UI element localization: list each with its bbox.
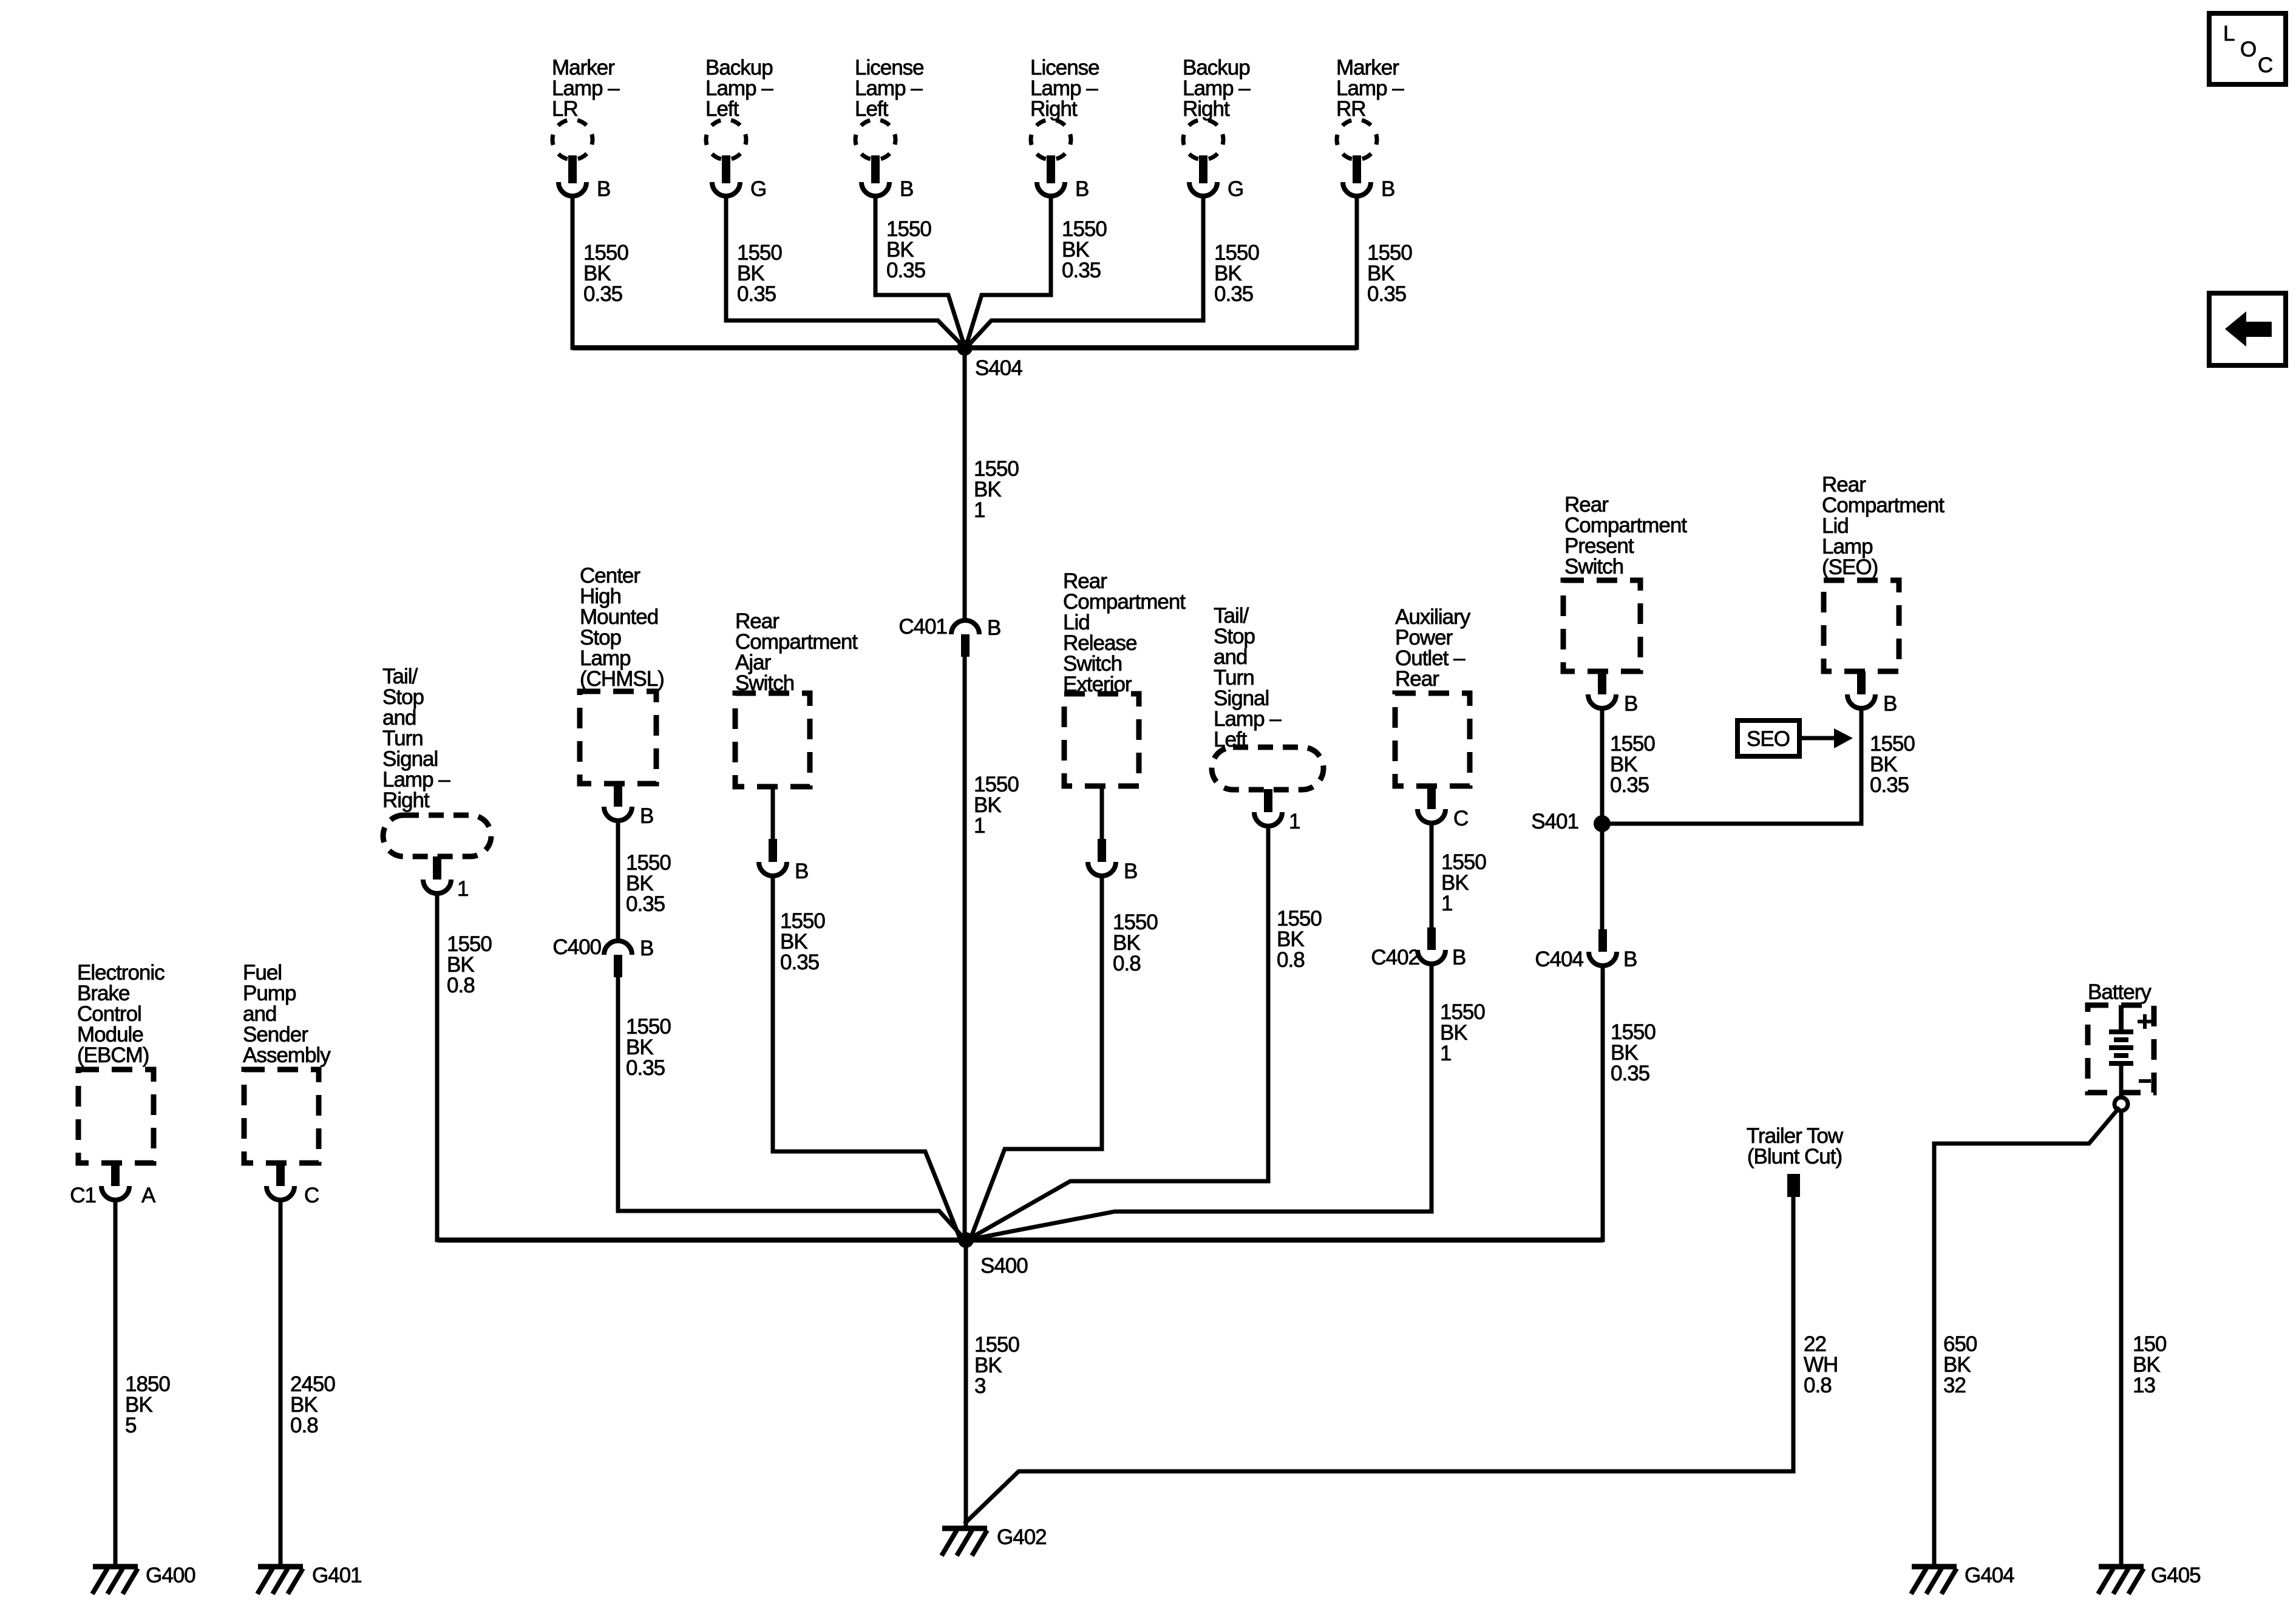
svg-text:Right: Right <box>1183 97 1230 121</box>
fuel pump connector pin C <box>276 1163 285 1186</box>
wire S400 bus <box>438 1238 1603 1243</box>
svg-text:0.35: 0.35 <box>1611 1062 1649 1085</box>
ground G404 <box>1912 1564 1957 1570</box>
wire EBCM to G400 <box>114 1202 118 1564</box>
aux connector pin C <box>1427 786 1436 809</box>
svg-text:B: B <box>1124 859 1137 883</box>
wire C400 to S400 <box>618 977 962 1236</box>
tail stop right lamp <box>383 815 491 856</box>
svg-text:C401: C401 <box>898 615 947 639</box>
wire marker LR to S404 <box>571 198 575 348</box>
CHMSL box <box>580 691 656 784</box>
svg-text:13: 13 <box>2133 1374 2155 1397</box>
battery box <box>2088 1005 2154 1093</box>
svg-text:C: C <box>304 1184 319 1207</box>
lid lamp SEO box <box>1824 580 1899 671</box>
svg-text:Right: Right <box>382 788 430 812</box>
svg-text:(Blunt Cut): (Blunt Cut) <box>1747 1145 1842 1168</box>
svg-text:C: C <box>1453 807 1468 830</box>
svg-text:0.35: 0.35 <box>1610 773 1649 797</box>
wire ajar box to pin <box>771 787 775 839</box>
svg-text:(CHMSL): (CHMSL) <box>580 667 664 691</box>
connector C404 <box>1598 929 1607 952</box>
svg-text:Right: Right <box>1030 97 1078 121</box>
svg-text:3: 3 <box>974 1374 985 1398</box>
svg-text:1: 1 <box>1289 810 1300 833</box>
battery node <box>2114 1097 2128 1111</box>
svg-text:Battery: Battery <box>2088 980 2152 1004</box>
CHMSL connector pin B <box>614 784 622 807</box>
marker lamp RR bulb <box>1337 120 1377 160</box>
wire S401 to C404 <box>1600 824 1605 929</box>
svg-text:G405: G405 <box>2151 1564 2201 1587</box>
EBCM box <box>78 1070 154 1163</box>
SEO arrow <box>1801 736 1835 741</box>
wire backup right to S404 <box>968 198 1203 346</box>
lid release switch box <box>1064 694 1139 786</box>
svg-text:1: 1 <box>1441 892 1452 915</box>
aux power outlet box <box>1395 693 1470 786</box>
wire C402 to S400 <box>973 966 1432 1239</box>
svg-text:B: B <box>1624 692 1637 716</box>
svg-text:SEO: SEO <box>1747 727 1790 751</box>
release connector pin B <box>1098 839 1106 862</box>
wire marker bus through S404 <box>572 345 1357 351</box>
svg-text:G: G <box>1228 177 1243 201</box>
svg-text:C400: C400 <box>552 935 601 959</box>
svg-text:0.35: 0.35 <box>1870 773 1909 797</box>
wire S400 to G402 <box>964 1240 968 1526</box>
wire ajar to S400 <box>773 878 959 1236</box>
svg-text:(SEO): (SEO) <box>1822 555 1878 579</box>
license lamp left bulb <box>855 120 895 160</box>
wire license left to S404 <box>875 198 964 345</box>
wire CHMSL to C400 <box>616 825 620 938</box>
svg-text:B: B <box>1883 692 1897 716</box>
wire license right to S404 <box>966 198 1051 345</box>
wire backup left to S404 <box>726 198 963 346</box>
svg-text:S404: S404 <box>975 356 1022 380</box>
splice S401 <box>1594 815 1611 832</box>
svg-text:0.8: 0.8 <box>1277 948 1305 972</box>
wire trailer tow to G402 <box>966 1197 1793 1522</box>
svg-text:32: 32 <box>1943 1374 1966 1397</box>
svg-text:0.35: 0.35 <box>1214 282 1253 306</box>
svg-text:1: 1 <box>1440 1042 1451 1065</box>
tail stop left lamp <box>1212 747 1323 790</box>
svg-text:G: G <box>750 177 766 201</box>
fuel pump box <box>244 1070 319 1163</box>
ajar switch box <box>735 693 810 787</box>
splice S400 <box>958 1232 974 1248</box>
svg-text:0.35: 0.35 <box>886 259 925 282</box>
svg-text:0.35: 0.35 <box>1367 282 1406 306</box>
svg-text:O: O <box>2240 38 2256 61</box>
wire C404 to S400 <box>974 968 1603 1240</box>
svg-text:1: 1 <box>457 877 468 901</box>
svg-text:B: B <box>640 804 653 828</box>
wire S404 to C401 <box>963 348 967 618</box>
svg-text:B: B <box>1452 946 1466 969</box>
svg-text:0.8: 0.8 <box>290 1414 318 1437</box>
svg-text:1: 1 <box>974 498 985 522</box>
wire release to S400 <box>971 878 1102 1236</box>
svg-text:0.8: 0.8 <box>1113 952 1141 975</box>
SEO callout box <box>1737 720 1799 756</box>
backup lamp left bulb <box>706 120 746 160</box>
svg-text:L: L <box>2223 22 2235 46</box>
wire SEO lamp to S401 <box>1611 711 1861 824</box>
wire tail stop right to S400 <box>435 896 440 1240</box>
svg-text:RR: RR <box>1336 97 1366 121</box>
connector C401 <box>951 620 979 634</box>
svg-text:G402: G402 <box>997 1525 1047 1549</box>
svg-text:0.35: 0.35 <box>626 892 665 916</box>
svg-text:B: B <box>597 177 610 201</box>
license lamp right bulb <box>1031 120 1071 160</box>
present switch box <box>1563 580 1640 671</box>
svg-text:B: B <box>640 937 653 960</box>
svg-text:0.8: 0.8 <box>447 974 475 997</box>
svg-text:G404: G404 <box>1965 1564 2014 1587</box>
splice S404 <box>957 340 973 356</box>
svg-text:1: 1 <box>974 814 985 838</box>
svg-text:B: B <box>795 859 808 883</box>
present switch connector pin B <box>1598 671 1606 694</box>
svg-text:(EBCM): (EBCM) <box>77 1043 149 1067</box>
trailer tow blunt cut <box>1787 1174 1800 1197</box>
wire battery to G405 <box>2119 1111 2124 1564</box>
svg-text:C: C <box>2258 53 2272 77</box>
battery cells <box>2119 1005 2124 1031</box>
ground G400 <box>93 1564 138 1570</box>
svg-text:G401: G401 <box>312 1564 362 1587</box>
svg-text:B: B <box>1381 177 1394 201</box>
svg-text:Left: Left <box>855 97 889 121</box>
svg-text:S400: S400 <box>980 1254 1028 1278</box>
svg-text:G400: G400 <box>146 1564 195 1587</box>
svg-text:B: B <box>1075 177 1089 201</box>
backup lamp right bulb <box>1183 120 1223 160</box>
svg-text:0.8: 0.8 <box>1804 1374 1832 1397</box>
back arrow box <box>2209 293 2286 365</box>
ajar connector pin B <box>769 839 777 862</box>
svg-text:LR: LR <box>552 97 578 121</box>
svg-text:0.35: 0.35 <box>626 1056 665 1080</box>
svg-text:Switch: Switch <box>1564 555 1623 578</box>
svg-text:0.35: 0.35 <box>1062 259 1101 282</box>
connector C400 <box>604 941 632 955</box>
wire fuel pump to G401 <box>279 1202 283 1564</box>
wire C401 to S400 <box>963 656 967 1240</box>
svg-text:0.35: 0.35 <box>583 282 622 306</box>
svg-text:0.35: 0.35 <box>780 951 819 974</box>
svg-text:0.35: 0.35 <box>737 282 776 306</box>
svg-text:B: B <box>1623 947 1637 971</box>
ground G405 <box>2099 1564 2144 1570</box>
tail stop right connector pin 1 <box>433 856 441 880</box>
connector C402 <box>1427 927 1436 950</box>
ground G401 <box>258 1564 303 1570</box>
svg-text:B: B <box>900 177 913 201</box>
svg-text:Rear: Rear <box>1395 667 1439 691</box>
svg-text:A: A <box>141 1184 156 1207</box>
svg-text:Left: Left <box>705 97 739 121</box>
EBCM connector C1 pin A <box>111 1163 120 1186</box>
wire release box to pin <box>1100 786 1104 839</box>
wire aux to C402 <box>1430 827 1434 927</box>
svg-text:C404: C404 <box>1535 947 1583 971</box>
lid lamp SEO connector pin B <box>1857 671 1866 694</box>
svg-text:5: 5 <box>125 1414 136 1437</box>
wire tail stop left to S400 <box>971 829 1268 1238</box>
svg-text:C402: C402 <box>1371 946 1419 969</box>
LOC legend box <box>2209 13 2286 84</box>
tail stop left connector pin 1 <box>1264 789 1272 812</box>
svg-text:C1: C1 <box>70 1184 96 1207</box>
svg-text:Assembly: Assembly <box>243 1043 331 1067</box>
wire present switch to S401 <box>1600 711 1605 824</box>
marker lamp LR bulb <box>552 120 593 160</box>
svg-text:S401: S401 <box>1531 810 1578 833</box>
ground G402 <box>942 1526 987 1531</box>
wire battery to G404 <box>1934 1109 2118 1564</box>
svg-text:B: B <box>987 616 1000 640</box>
wire marker RR to S404 <box>1355 198 1359 348</box>
